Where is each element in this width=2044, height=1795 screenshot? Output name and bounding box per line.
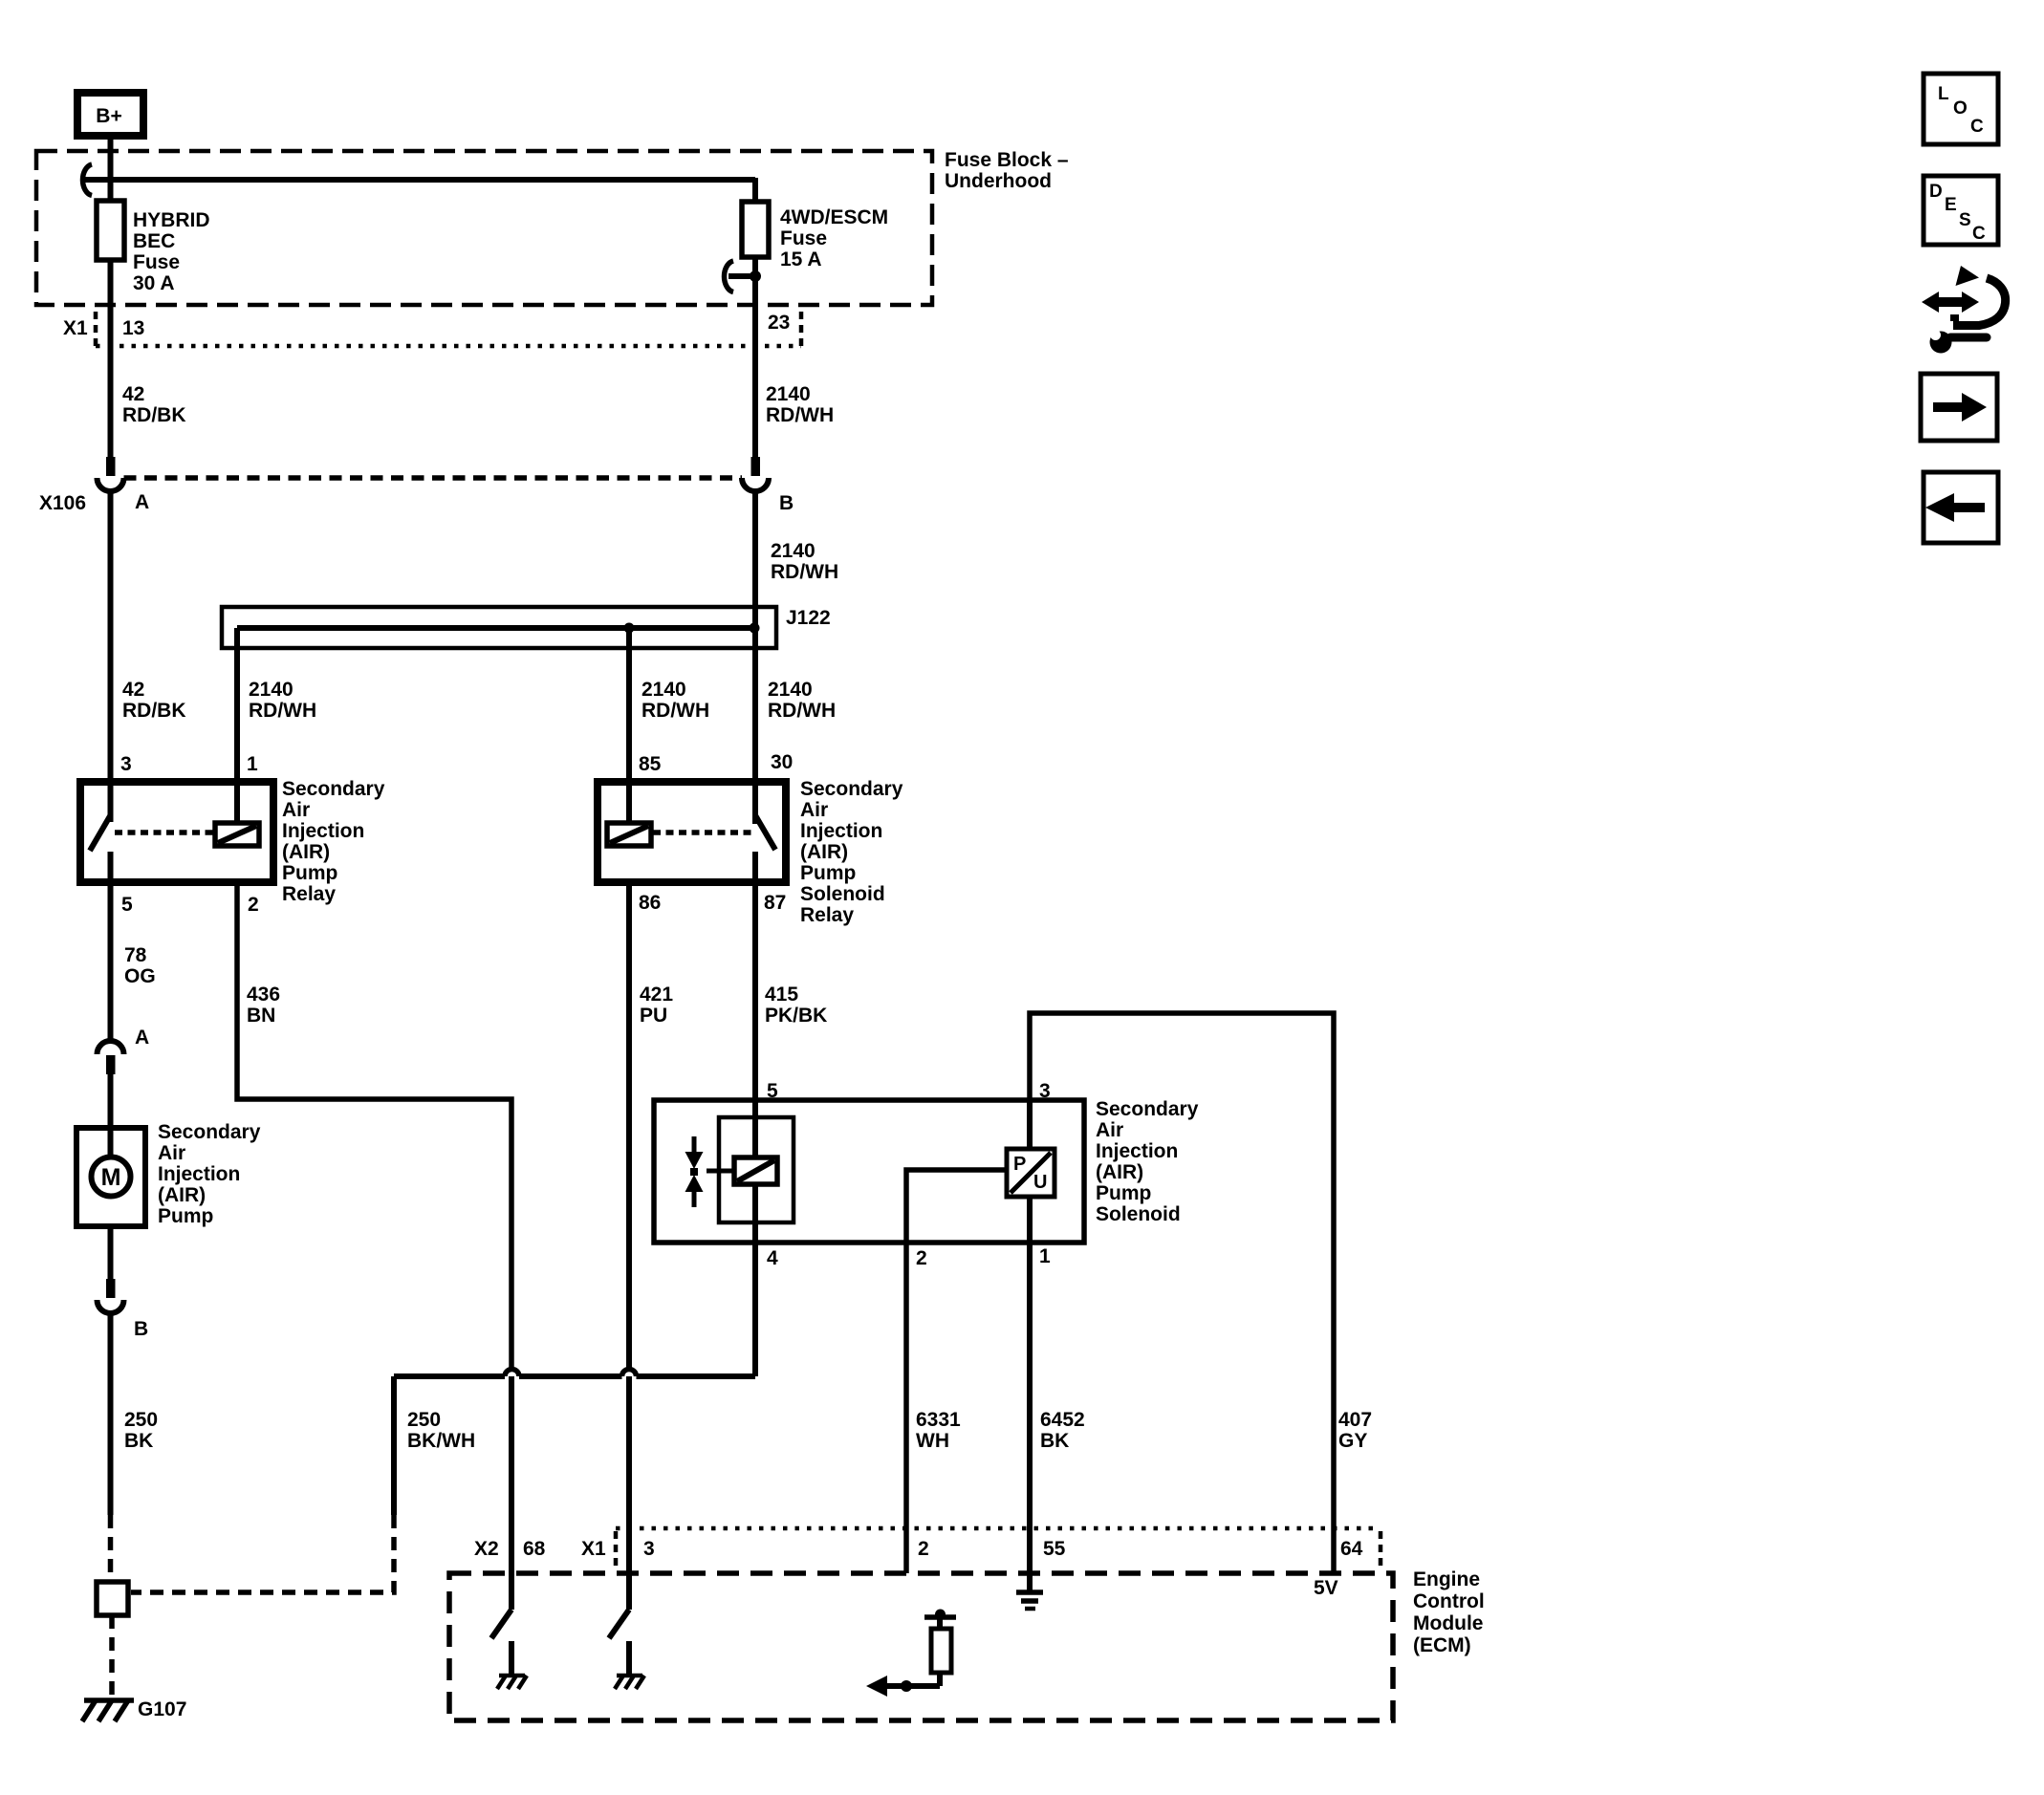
svg-text:2: 2 bbox=[918, 1538, 929, 1560]
check valve arrows bbox=[692, 1136, 697, 1154]
svg-text:(AIR): (AIR) bbox=[800, 841, 848, 863]
svg-text:Secondary: Secondary bbox=[158, 1121, 261, 1143]
ECM internal switch for X1-3 bbox=[626, 1376, 632, 1610]
connector X106 terminal B bbox=[751, 457, 761, 476]
svg-text:2140: 2140 bbox=[249, 679, 294, 701]
wire motor to connector B bbox=[108, 1226, 114, 1279]
wire 415 PK/BK : relay2 pin87 to solenoid pin5 bbox=[752, 886, 758, 1159]
wire B+ to fuse bbox=[108, 136, 114, 203]
svg-text:Air: Air bbox=[158, 1142, 185, 1164]
connector B at pump bbox=[106, 1279, 116, 1298]
svg-text:Injection: Injection bbox=[1096, 1140, 1178, 1162]
svg-text:5V: 5V bbox=[1314, 1577, 1338, 1599]
svg-text:Underhood: Underhood bbox=[945, 170, 1052, 192]
fuse HYBRID BEC 30A bbox=[97, 201, 124, 260]
svg-text:Pump: Pump bbox=[800, 862, 856, 884]
ECM ground at pin 55 bbox=[1016, 1590, 1043, 1595]
svg-text:Injection: Injection bbox=[158, 1163, 240, 1185]
ECM connector dotted row bbox=[614, 1531, 619, 1566]
svg-text:55: 55 bbox=[1043, 1538, 1066, 1560]
solenoid inner valve body bbox=[719, 1117, 794, 1222]
svg-text:J122: J122 bbox=[786, 607, 831, 629]
svg-text:Secondary: Secondary bbox=[282, 778, 385, 800]
relay2 switch bbox=[755, 815, 775, 850]
wire solenoid pin1 to ECM 55 bbox=[1027, 1197, 1033, 1591]
svg-text:P: P bbox=[1013, 1154, 1026, 1175]
svg-text:23: 23 bbox=[768, 312, 790, 334]
svg-text:U: U bbox=[1033, 1172, 1047, 1193]
svg-text:13: 13 bbox=[122, 317, 144, 339]
wire through coil to pin4 bbox=[752, 1184, 758, 1376]
svg-text:3: 3 bbox=[643, 1538, 655, 1560]
connector X1 row of fuse block bbox=[94, 312, 98, 346]
svg-text:2140: 2140 bbox=[771, 540, 815, 562]
svg-text:2: 2 bbox=[916, 1247, 927, 1269]
svg-text:BK: BK bbox=[1040, 1430, 1069, 1452]
wire fuse1 to X106 bbox=[108, 260, 114, 458]
wire to motor bbox=[108, 1074, 114, 1157]
svg-text:6331: 6331 bbox=[916, 1409, 961, 1431]
svg-text:421: 421 bbox=[640, 984, 673, 1006]
connector X106 terminal A bbox=[106, 457, 116, 476]
svg-text:GY: GY bbox=[1338, 1430, 1367, 1452]
wire PU pin2 bbox=[906, 1170, 1007, 1573]
fuse 4WD/ESCM 15A bbox=[742, 202, 769, 257]
svg-text:C: C bbox=[1972, 224, 1986, 244]
wire 250 BK/WH down bbox=[391, 1376, 397, 1515]
terminal hook at B+ junction bbox=[82, 164, 92, 196]
wire 250 BK/WH horizontal run with hops bbox=[394, 1373, 505, 1379]
svg-text:Secondary: Secondary bbox=[1096, 1098, 1199, 1120]
svg-text:PK/BK: PK/BK bbox=[765, 1005, 827, 1027]
svg-text:2: 2 bbox=[248, 894, 259, 916]
svg-text:G107: G107 bbox=[138, 1698, 186, 1720]
wire X106-A to relay bbox=[108, 490, 114, 822]
svg-text:Air: Air bbox=[800, 799, 828, 821]
relay2 actuation dashed bbox=[653, 830, 751, 835]
svg-text:OG: OG bbox=[124, 965, 156, 987]
wire 250 BK bbox=[108, 1313, 114, 1515]
svg-text:RD/BK: RD/BK bbox=[122, 404, 186, 426]
svg-text:A: A bbox=[135, 1027, 149, 1049]
svg-text:BK: BK bbox=[124, 1430, 153, 1452]
svg-text:Pump: Pump bbox=[282, 862, 337, 884]
svg-text:Air: Air bbox=[282, 799, 310, 821]
relay1 coil bbox=[215, 823, 259, 846]
svg-text:Injection: Injection bbox=[282, 820, 364, 842]
svg-text:4: 4 bbox=[767, 1247, 778, 1269]
svg-text:RD/WH: RD/WH bbox=[766, 404, 834, 426]
svg-text:RD/WH: RD/WH bbox=[768, 700, 836, 722]
svg-text:68: 68 bbox=[523, 1538, 546, 1560]
wire fuse block bus bbox=[82, 177, 755, 183]
svg-text:85: 85 bbox=[639, 753, 662, 775]
svg-text:436: 436 bbox=[247, 984, 280, 1006]
battery feed B+ bbox=[77, 93, 143, 136]
svg-text:64: 64 bbox=[1340, 1538, 1363, 1560]
svg-text:Relay: Relay bbox=[800, 904, 854, 926]
svg-text:2140: 2140 bbox=[768, 679, 813, 701]
svg-text:Solenoid: Solenoid bbox=[1096, 1203, 1181, 1225]
solenoid: Secondary Air Injection (AIR) Pump Solenoid box bbox=[654, 1100, 1084, 1243]
relay: Secondary Air Injection (AIR) Pump Relay bbox=[80, 782, 273, 882]
wire solenoid pin3 to ECM 64 : 407 GY bbox=[1030, 1013, 1334, 1573]
svg-text:1: 1 bbox=[1039, 1245, 1051, 1267]
svg-text:D: D bbox=[1929, 182, 1943, 202]
svg-text:6452: 6452 bbox=[1040, 1409, 1085, 1431]
svg-text:407: 407 bbox=[1338, 1409, 1372, 1431]
svg-text:87: 87 bbox=[764, 892, 786, 914]
svg-text:5: 5 bbox=[121, 894, 133, 916]
terminal hook at 4WD fuse output bbox=[724, 261, 733, 292]
svg-text:X2: X2 bbox=[474, 1538, 499, 1560]
ground G107 bbox=[82, 1700, 134, 1721]
solenoid coil bbox=[734, 1157, 777, 1184]
icon dog-with-arrow and wrench bbox=[1953, 278, 2006, 326]
svg-text:Pump: Pump bbox=[158, 1205, 213, 1227]
svg-text:BN: BN bbox=[247, 1005, 275, 1027]
svg-text:250: 250 bbox=[407, 1409, 441, 1431]
wire J122 to relay2 pin30 bbox=[752, 628, 758, 824]
svg-text:42: 42 bbox=[122, 383, 144, 405]
wire 421 PU : relay2 pin86 to ECM X1-3 bbox=[626, 886, 632, 1370]
svg-text:RD/BK: RD/BK bbox=[122, 700, 186, 722]
svg-text:(AIR): (AIR) bbox=[158, 1184, 206, 1206]
svg-text:2140: 2140 bbox=[641, 679, 686, 701]
svg-text:PU: PU bbox=[640, 1005, 667, 1027]
svg-text:42: 42 bbox=[122, 679, 144, 701]
svg-text:RD/WH: RD/WH bbox=[771, 561, 838, 583]
icon DESC bbox=[1924, 176, 1998, 245]
svg-text:415: 415 bbox=[765, 984, 798, 1006]
svg-text:C: C bbox=[1970, 117, 1984, 137]
svg-text:30: 30 bbox=[771, 751, 793, 773]
svg-text:Control: Control bbox=[1413, 1590, 1485, 1612]
svg-text:HYBRID: HYBRID bbox=[133, 209, 210, 231]
relay2 coil bbox=[607, 823, 651, 846]
icon LOC bbox=[1924, 74, 1998, 144]
svg-text:Secondary: Secondary bbox=[800, 778, 903, 800]
J122 bus bar bbox=[237, 625, 754, 631]
fuse block dashed box bbox=[36, 151, 932, 305]
ECM sense input: arrow, node, resistor, 5V bbox=[885, 1683, 940, 1689]
svg-text:15 A: 15 A bbox=[780, 249, 822, 270]
svg-text:E: E bbox=[1945, 195, 1957, 215]
svg-text:2140: 2140 bbox=[766, 383, 811, 405]
svg-text:Relay: Relay bbox=[282, 883, 336, 905]
splice S-node bbox=[97, 1582, 128, 1615]
relay1 switch bbox=[90, 815, 111, 851]
svg-text:L: L bbox=[1938, 84, 1949, 104]
ECM dashed box bbox=[449, 1573, 1393, 1720]
svg-text:RD/WH: RD/WH bbox=[641, 700, 709, 722]
dashed to ground bbox=[109, 1615, 115, 1699]
svg-text:(AIR): (AIR) bbox=[1096, 1161, 1143, 1183]
node on bus at X106-B wire bbox=[750, 623, 760, 634]
icon forward arrow bbox=[1921, 374, 1997, 441]
relay1 actuation dashed bbox=[115, 830, 215, 835]
PU driver box bbox=[1027, 1100, 1033, 1151]
svg-text:B: B bbox=[134, 1318, 148, 1340]
svg-text:250: 250 bbox=[124, 1409, 158, 1431]
svg-text:Engine: Engine bbox=[1413, 1568, 1480, 1590]
svg-text:(AIR): (AIR) bbox=[282, 841, 330, 863]
svg-text:Solenoid: Solenoid bbox=[800, 883, 885, 905]
svg-text:30 A: 30 A bbox=[133, 272, 175, 294]
junction block J122 bbox=[222, 607, 776, 648]
svg-text:4WD/ESCM: 4WD/ESCM bbox=[780, 206, 888, 228]
svg-text:Pump: Pump bbox=[1096, 1182, 1151, 1204]
svg-text:86: 86 bbox=[639, 892, 661, 914]
svg-text:S: S bbox=[1959, 210, 1971, 230]
svg-text:78: 78 bbox=[124, 944, 147, 966]
svg-text:X1: X1 bbox=[63, 317, 88, 339]
svg-text:Air: Air bbox=[1096, 1119, 1123, 1141]
ECM internal switch for X2-68 bbox=[509, 1376, 514, 1610]
svg-text:M: M bbox=[101, 1164, 121, 1191]
svg-text:Injection: Injection bbox=[800, 820, 882, 842]
svg-text:BEC: BEC bbox=[133, 230, 175, 252]
connector X106 dashed body bbox=[124, 475, 743, 481]
relay: Secondary Air Injection (AIR) Pump Solenoid Relay bbox=[598, 782, 786, 882]
svg-text:O: O bbox=[1953, 98, 1968, 119]
svg-text:X1: X1 bbox=[581, 1538, 606, 1560]
wire relay1 pin5 to AIR pump bbox=[108, 886, 114, 1041]
svg-text:(ECM): (ECM) bbox=[1413, 1634, 1471, 1656]
svg-text:Fuse Block –: Fuse Block – bbox=[945, 149, 1069, 171]
wire J122 to relay2 pin85 bbox=[626, 628, 632, 824]
svg-text:B+: B+ bbox=[96, 105, 121, 127]
wire X106-B to J122 bbox=[752, 490, 758, 630]
motor: Secondary Air Injection (AIR) Pump bbox=[76, 1128, 145, 1226]
icon back arrow bbox=[1924, 472, 1998, 543]
svg-text:B: B bbox=[779, 492, 794, 514]
svg-text:RD/WH: RD/WH bbox=[249, 700, 316, 722]
svg-text:Module: Module bbox=[1413, 1612, 1484, 1634]
wire 436 BN : relay1 pin2 to ECM X2-68 bbox=[237, 886, 511, 1370]
wire J122 to relay1 pin1 bbox=[234, 628, 240, 824]
svg-text:1: 1 bbox=[247, 753, 258, 775]
svg-text:Fuse: Fuse bbox=[133, 251, 180, 273]
svg-text:WH: WH bbox=[916, 1430, 949, 1452]
node on bus at relay2 coil wire bbox=[624, 623, 635, 634]
svg-text:3: 3 bbox=[120, 753, 132, 775]
svg-text:BK/WH: BK/WH bbox=[407, 1430, 475, 1452]
wire fuse2 to X106 bbox=[752, 257, 758, 458]
svg-text:Fuse: Fuse bbox=[780, 227, 827, 249]
svg-text:A: A bbox=[135, 491, 149, 513]
svg-text:X106: X106 bbox=[39, 492, 86, 514]
